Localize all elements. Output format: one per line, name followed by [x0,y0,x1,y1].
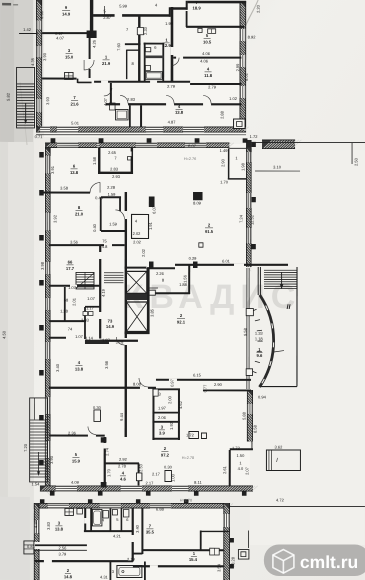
svg-text:17.7: 17.7 [66,266,75,271]
svg-text:1.72: 1.72 [250,134,259,139]
svg-text:1.00: 1.00 [170,473,175,482]
svg-text:0.81: 0.81 [27,544,36,549]
svg-text:0.40: 0.40 [92,223,97,232]
svg-text:1.59: 1.59 [108,192,117,197]
svg-text:2.06: 2.06 [158,415,167,420]
svg-text:0.94: 0.94 [258,395,267,400]
svg-text:66: 66 [68,259,73,264]
svg-text:2.83: 2.83 [110,166,119,171]
svg-text:1.59: 1.59 [109,221,118,226]
svg-text:2.74: 2.74 [104,447,109,456]
svg-text:1.54: 1.54 [32,481,41,486]
svg-text:35.5: 35.5 [146,529,155,534]
svg-text:2.50: 2.50 [354,157,359,166]
svg-text:2.99: 2.99 [235,63,240,72]
svg-text:3.85: 3.85 [149,308,154,317]
svg-text:2.20: 2.20 [256,4,261,13]
svg-text:1.88: 1.88 [179,282,188,287]
svg-text:12.9: 12.9 [163,43,172,48]
svg-text:6.15: 6.15 [193,373,202,378]
svg-text:1.07: 1.07 [87,296,96,301]
svg-text:6.07: 6.07 [188,143,197,148]
svg-text:4.07: 4.07 [103,97,108,106]
svg-text:8.02: 8.02 [244,72,249,81]
svg-text:1.58: 1.58 [92,156,97,165]
svg-text:4.06: 4.06 [202,51,211,56]
svg-text:2.17: 2.17 [152,471,161,476]
svg-text:3.98: 3.98 [104,360,109,369]
svg-text:74: 74 [68,326,73,331]
svg-text:13.8: 13.8 [55,526,64,531]
svg-text:73: 73 [108,318,113,323]
svg-text:0.40: 0.40 [95,195,104,200]
svg-text:3.79: 3.79 [59,551,68,556]
svg-text:3.83: 3.83 [46,521,51,530]
svg-text:1.97: 1.97 [158,405,167,410]
svg-text:6.01: 6.01 [222,259,231,264]
svg-text:4.87: 4.87 [168,119,177,124]
svg-text:3.40: 3.40 [55,363,60,372]
svg-text:6.88: 6.88 [156,506,165,511]
svg-text:9.6: 9.6 [257,353,263,358]
svg-text:3.54: 3.54 [216,563,221,572]
svg-text:9.44: 9.44 [119,412,124,421]
svg-text:4.72: 4.72 [276,498,285,503]
svg-text:8.09: 8.09 [193,201,202,206]
svg-text:2.83: 2.83 [127,97,136,102]
svg-text:0.77: 0.77 [202,384,207,393]
svg-text:1.87: 1.87 [102,337,111,342]
svg-text:2.02: 2.02 [133,239,142,244]
svg-text:cmlt.ru: cmlt.ru [300,552,358,572]
svg-text:2.90: 2.90 [214,382,223,387]
svg-text:0.30: 0.30 [164,464,173,469]
svg-text:6.07: 6.07 [152,205,157,214]
svg-text:1.72: 1.72 [186,433,195,438]
svg-text:0.97: 0.97 [169,378,174,387]
svg-text:5.65: 5.65 [39,10,44,19]
svg-text:91.5: 91.5 [205,229,214,234]
svg-text:10.5: 10.5 [203,40,212,45]
svg-text:3.91: 3.91 [50,165,55,174]
svg-text:2.53: 2.53 [138,463,143,472]
svg-text:92.1: 92.1 [177,319,186,324]
svg-text:1.17: 1.17 [86,305,95,310]
svg-text:4.19: 4.19 [101,288,106,297]
svg-text:2.79: 2.79 [167,84,176,89]
svg-text:21.6: 21.6 [70,101,79,106]
svg-text:2.87: 2.87 [103,15,112,20]
svg-text:73.28: 73.28 [230,556,235,567]
svg-text:4.6: 4.6 [120,476,126,481]
svg-text:0.29: 0.29 [189,256,198,261]
svg-text:2.65: 2.65 [108,150,117,155]
svg-text:4.09: 4.09 [71,480,80,485]
svg-text:1.07: 1.07 [68,285,77,290]
svg-text:13.8: 13.8 [70,170,79,175]
svg-text:3.58: 3.58 [60,185,69,190]
svg-text:8.58: 8.58 [252,424,257,433]
svg-text:2.78: 2.78 [118,463,127,468]
svg-text:2.92: 2.92 [119,457,128,462]
svg-text:2.79: 2.79 [208,85,217,90]
svg-text:14.9: 14.9 [62,11,71,16]
svg-text:4.0: 4.0 [238,466,244,471]
svg-text:2.02: 2.02 [141,248,146,257]
svg-text:3.40: 3.40 [135,524,140,533]
svg-text:H=2.78: H=2.78 [182,456,194,460]
svg-text:1.02: 1.02 [229,96,238,101]
svg-text:3.92: 3.92 [53,214,58,223]
svg-text:4.06: 4.06 [200,59,209,64]
svg-text:1.92: 1.92 [169,421,174,430]
svg-text:1.18: 1.18 [255,336,264,341]
svg-text:0.30: 0.30 [93,405,102,410]
svg-text:2.28: 2.28 [107,185,116,190]
svg-text:4.62: 4.62 [178,400,183,409]
svg-text:2.88: 2.88 [220,110,225,119]
svg-text:15.4: 15.4 [189,557,198,562]
svg-text:2.07: 2.07 [245,466,250,475]
svg-text:13.8: 13.8 [175,110,184,115]
svg-text:2.01: 2.01 [71,297,76,306]
svg-text:2.90: 2.90 [220,158,225,167]
svg-text:H=2.78: H=2.78 [180,498,192,502]
svg-text:3.93: 3.93 [45,96,50,105]
svg-text:4.8: 4.8 [102,244,108,249]
svg-text:1.70: 1.70 [220,180,229,185]
svg-text:2.56: 2.56 [59,545,68,550]
svg-text:2.61: 2.61 [222,465,227,474]
svg-text:2.19: 2.19 [127,557,136,562]
svg-text:4.40: 4.40 [33,519,38,528]
svg-text:1.70: 1.70 [106,468,111,477]
svg-text:18.9: 18.9 [193,6,202,11]
svg-text:4.31: 4.31 [100,574,109,579]
svg-text:1.49: 1.49 [220,148,229,153]
svg-text:9.58: 9.58 [243,327,248,336]
svg-text:12.52: 12.52 [250,214,255,225]
svg-text:14.9: 14.9 [106,324,115,329]
svg-text:4.26: 4.26 [92,39,97,48]
svg-text:1.50: 1.50 [237,453,246,458]
svg-text:7.24: 7.24 [239,214,244,223]
svg-text:H=2.76: H=2.76 [184,157,196,161]
svg-text:97.2: 97.2 [161,452,170,457]
svg-text:2.26: 2.26 [156,271,165,276]
svg-text:1.33: 1.33 [255,331,264,336]
svg-text:1.42: 1.42 [23,27,32,32]
svg-text:5.82: 5.82 [6,92,11,101]
svg-text:7.60: 7.60 [116,42,121,51]
svg-text:8.08: 8.08 [133,381,142,386]
svg-text:3.9: 3.9 [159,430,165,435]
svg-text:68: 68 [64,297,69,302]
svg-text:21.0: 21.0 [75,211,84,216]
svg-text:2.93: 2.93 [112,174,121,179]
svg-text:2.00: 2.00 [167,395,172,404]
svg-text:4.35: 4.35 [30,57,35,66]
svg-text:2.83: 2.83 [81,317,90,322]
svg-text:5.99: 5.99 [119,3,128,8]
svg-text:3.90: 3.90 [42,52,47,61]
svg-text:1.14: 1.14 [85,335,94,340]
svg-text:13.8: 13.8 [75,366,84,371]
svg-text:7.20: 7.20 [23,443,28,452]
svg-text:21.9: 21.9 [102,61,111,66]
svg-text:3.98: 3.98 [40,261,45,270]
svg-text:1.98: 1.98 [240,162,245,171]
svg-text:75: 75 [102,238,107,243]
svg-text:3.62: 3.62 [275,445,284,450]
svg-text:8.11: 8.11 [194,480,202,485]
svg-text:1.91: 1.91 [148,221,153,230]
svg-text:2.33: 2.33 [143,26,148,35]
svg-text:4.21: 4.21 [113,533,122,538]
svg-text:15.0: 15.0 [65,54,74,59]
svg-text:3.10: 3.10 [273,165,282,170]
svg-text:1.99: 1.99 [165,21,174,26]
svg-text:1.07: 1.07 [75,334,84,339]
svg-text:3.56: 3.56 [70,239,79,244]
svg-text:8.92: 8.92 [248,35,257,40]
svg-text:5.01: 5.01 [71,120,80,125]
svg-text:3.78: 3.78 [116,339,125,344]
svg-text:11.8: 11.8 [204,73,213,78]
svg-text:4.50: 4.50 [1,330,6,339]
svg-text:14.8: 14.8 [64,574,73,579]
svg-text:2.36: 2.36 [68,430,77,435]
svg-text:3.90: 3.90 [49,455,54,464]
svg-text:2.17: 2.17 [146,480,155,485]
svg-text:5.88: 5.88 [241,411,246,420]
svg-text:1.28: 1.28 [60,308,69,313]
svg-text:0.71: 0.71 [35,134,44,139]
svg-text:2.02: 2.02 [133,231,142,236]
svg-text:15.9: 15.9 [72,458,81,463]
svg-text:1.72: 1.72 [232,446,241,451]
svg-text:4.07: 4.07 [56,35,65,40]
